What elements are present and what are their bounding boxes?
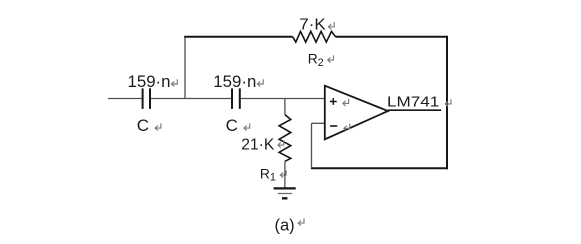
line-break mark after caption — [298, 218, 304, 225]
op-amp minus input sign — [330, 125, 337, 127]
ground bar top — [274, 187, 296, 189]
wire feedback left vertical — [311, 123, 313, 168]
line-break mark after second 159n — [257, 79, 263, 86]
line-break mark after plus — [343, 99, 349, 106]
svg-text:159·n: 159·n — [213, 72, 256, 91]
wire feedback top left segment — [184, 36, 293, 38]
svg-text:7·K: 7·K — [299, 17, 326, 34]
svg-text:159·n: 159·n — [128, 72, 171, 91]
wire inverting input stub — [312, 122, 325, 124]
line-break mark after R2 — [328, 55, 334, 62]
line-break mark after minus — [344, 124, 350, 131]
wire input stub to node A — [108, 98, 142, 100]
wire junction vertical to feedback top — [184, 37, 186, 99]
capacitor C (first, 159n) — [143, 88, 150, 109]
wire right vertical — [446, 36, 448, 169]
line-break mark after R1 — [280, 170, 286, 177]
svg-text:LM741: LM741 — [387, 95, 439, 111]
svg-text:R1: R1 — [260, 166, 276, 183]
resistor R1 zigzag — [279, 115, 291, 162]
svg-text:C: C — [137, 116, 149, 135]
line-break mark after LM741 — [445, 99, 451, 106]
op-amp U1 triangle — [325, 86, 388, 140]
capacitor C (second, 159n) — [232, 88, 240, 109]
wire node A segment between capacitors — [151, 98, 231, 100]
op-amp plus input sign — [330, 98, 337, 105]
wire node B segment to op-amp — [241, 98, 325, 100]
line-break mark after first 159n — [172, 79, 178, 86]
wire feedback top right segment — [336, 36, 447, 38]
svg-text:(a): (a) — [275, 217, 295, 235]
svg-text:21·K: 21·K — [241, 136, 274, 153]
line-break mark after 7K — [328, 22, 334, 29]
resistor R1 bottom connector wire — [284, 161, 286, 188]
line-break mark after 21K — [278, 140, 284, 147]
line-break mark after first C — [155, 123, 161, 130]
resistor R2 zigzag — [293, 31, 336, 42]
svg-text:C: C — [226, 116, 238, 135]
svg-text:R2: R2 — [308, 51, 324, 69]
resistor R1 top connector wire — [284, 99, 286, 115]
wire op-amp output / LM741 underline — [388, 109, 441, 111]
ground bar bottom — [282, 197, 287, 199]
line-break mark after second C — [244, 123, 250, 130]
wire bottom feedback — [311, 167, 448, 169]
ground bar middle — [278, 193, 292, 195]
